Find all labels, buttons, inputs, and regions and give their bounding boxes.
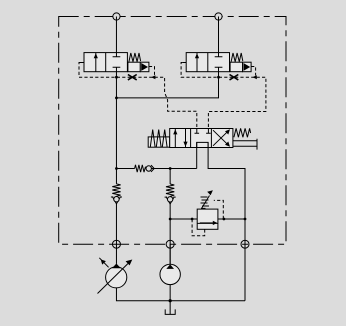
wire P supply header (116, 168, 196, 170)
node T-riser relief junction (244, 218, 247, 221)
valve V2 left port stub (183, 62, 187, 64)
port circle top P1 (113, 13, 120, 20)
valve V1 spring (129, 53, 141, 62)
port circle bottom B1 (112, 240, 120, 248)
check valve CV1 ball (114, 197, 119, 202)
wire riser1 vertical (115, 17, 117, 264)
valve V2 body (186, 53, 229, 72)
node riser1-crossline junction (115, 97, 118, 100)
valve V2 spring (231, 53, 243, 62)
valve V3 right tail (233, 139, 257, 150)
node relief left pilot tap (191, 218, 194, 221)
relief valve adjust arrow (202, 190, 213, 208)
valve V1 left port stub (81, 62, 85, 64)
pump PU2 outlet triangle (166, 264, 174, 269)
relief valve right pilot dashed (214, 200, 224, 219)
valve V1 blocked port top T (113, 53, 121, 57)
relief valve left pilot dashed (192, 219, 205, 236)
wire relief valve port line (170, 218, 245, 220)
check valve CV2 ball (167, 197, 172, 202)
valve V3 left spring (150, 130, 167, 147)
wire pump PU2 lines (169, 244, 171, 301)
wire riser3 vertical (169, 169, 171, 265)
pilot line valve V2 dashed (181, 63, 266, 129)
valve V1 pilot box (128, 62, 140, 71)
wire V3 T port down (208, 142, 245, 300)
pilot drop from V1 solenoid dashed (149, 67, 155, 76)
pump PU2 circle (160, 264, 180, 284)
relief valve RV body (197, 209, 218, 229)
valve V2 left-position arrow (195, 53, 199, 72)
enclosure dashed border (59, 17, 286, 245)
closed-port X on V2 pilot line (230, 75, 239, 80)
valve V3 right spring (234, 128, 251, 137)
pilot arrow on V1 line (151, 75, 155, 79)
valve V2 pilot triangle (243, 62, 252, 71)
valve V2 pilot box (230, 62, 242, 71)
check valve CV1 seat (111, 197, 122, 204)
check valve CV1 spring (112, 184, 120, 196)
node riser2-pilot2 junction (217, 76, 220, 79)
wire V3 P port down (196, 142, 198, 168)
valve V1 blocked port bottom T (113, 67, 121, 72)
pilot arrow on V2 line (253, 75, 257, 79)
pilot line valve V1 dashed (79, 63, 197, 129)
check valve CV2 spring (166, 184, 174, 196)
valve V3 body (170, 129, 233, 148)
valve V3 parallel arrows position (173, 129, 187, 148)
valve V1 left-position arrow (94, 53, 98, 72)
node pump PU2 bus junction (169, 299, 172, 302)
valve V3 crossed arrows position (213, 129, 230, 146)
port circle bottom B2 (166, 240, 174, 248)
port circle top P2 (215, 13, 222, 20)
inline check seat (151, 165, 154, 172)
port circle bottom B3 (241, 240, 249, 248)
valve V3 center blocked ports (195, 129, 211, 134)
valve V1 pilot triangle (140, 62, 149, 71)
wire pump PU1 outlet (115, 264, 117, 267)
pump PU1 circle (106, 267, 127, 288)
relief valve internal arrow (200, 221, 217, 225)
inline check ball (146, 166, 151, 171)
node riser1-Pline junction (115, 167, 118, 170)
node riser1-pilot1 junction (115, 76, 118, 79)
pump PU1 variable arrow (98, 260, 133, 294)
valve V1 body (84, 53, 127, 72)
inline check spring (135, 165, 146, 172)
valve V3 center bypass bridge (197, 142, 208, 147)
pump PU1 outlet triangle (112, 264, 121, 269)
wire pump PU1 suction to bus (116, 288, 245, 301)
closed-port X on V1 pilot line (128, 75, 137, 80)
pump PU1 compensator arrow (99, 258, 108, 268)
valve V2 blocked port bottom T (215, 67, 223, 72)
wire valve1-to-valve2 line (116, 72, 218, 98)
pilot drop from V2 solenoid dashed (251, 67, 256, 76)
node riser3 top junction (169, 167, 172, 170)
node riser3 relief tap (169, 218, 172, 221)
check valve CV2 seat (165, 197, 176, 204)
node relief right pilot tap (223, 218, 226, 221)
wire riser2 vertical (218, 17, 220, 53)
relief valve spring (201, 197, 210, 208)
valve V2 blocked port top T (215, 53, 223, 57)
tank symbol (165, 301, 175, 315)
valve V3 left spring housing (148, 137, 170, 147)
